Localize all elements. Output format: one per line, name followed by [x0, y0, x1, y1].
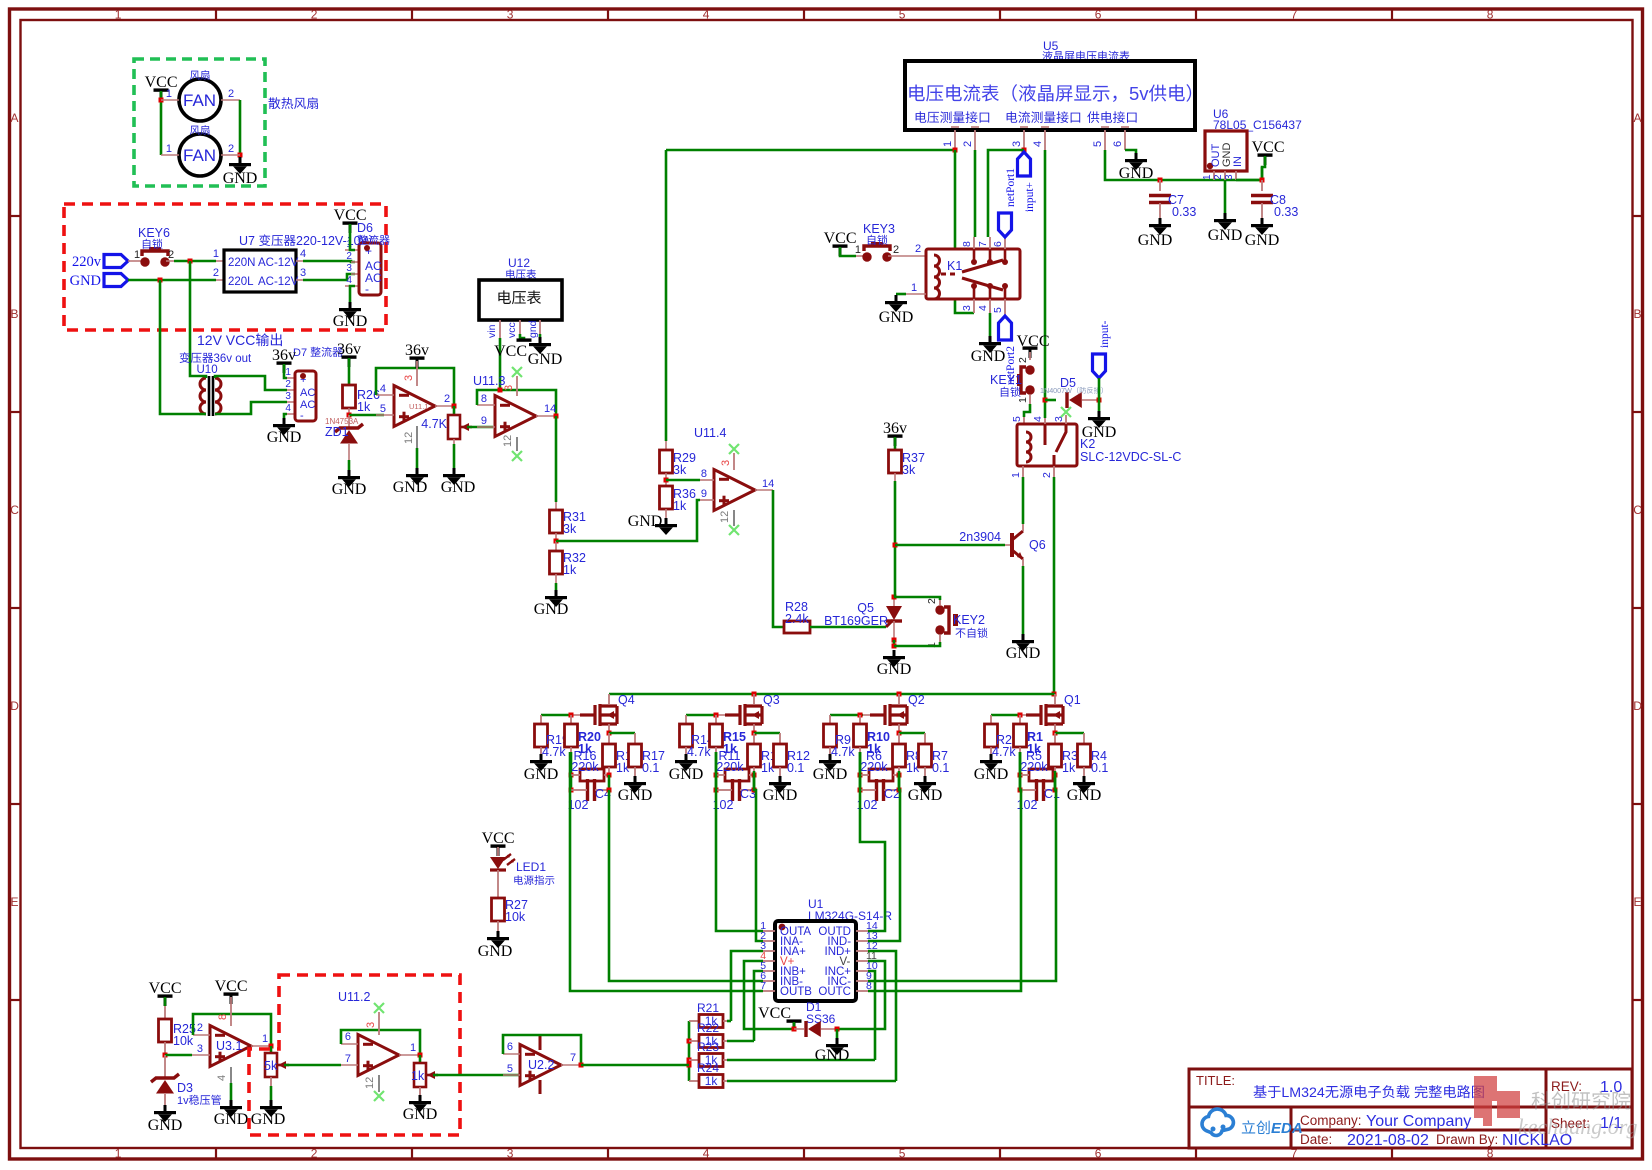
pin 5 of U2.2	[503, 1074, 520, 1076]
svg-text:36v: 36v	[405, 342, 429, 359]
svg-text:12: 12	[403, 432, 415, 444]
bridge rectifier D7	[295, 371, 316, 421]
wire Q5 cathode node	[893, 621, 895, 640]
svg-text:input-: input-	[1099, 320, 1111, 348]
K1 coil pin 1 to GND	[906, 293, 926, 295]
pin vin of U12	[499, 320, 501, 338]
svg-text:1: 1	[285, 367, 291, 378]
svg-text:C1: C1	[1044, 787, 1060, 801]
pin 7 of U11.2	[341, 1064, 358, 1066]
svg-text:3: 3	[1224, 174, 1235, 180]
pin 7 of U1 (OUTB)	[763, 990, 775, 992]
wire R8 down (sense node)	[897, 773, 902, 778]
VCC net (U6 in)	[1258, 153, 1273, 156]
svg-text:U5: U5	[1043, 39, 1059, 53]
resistor R22 1k	[689, 1040, 699, 1042]
pin 9 of U1 (INC-)	[856, 980, 868, 982]
svg-text:BT169GER: BT169GER	[824, 614, 888, 628]
svg-text:1: 1	[134, 249, 140, 261]
svg-text:3: 3	[961, 305, 973, 311]
svg-text:D: D	[1633, 699, 1642, 713]
source node of Q1	[1054, 724, 1056, 733]
wire U3.1 pin4 to GND	[230, 1083, 233, 1100]
resistor R36 1k	[660, 486, 673, 509]
net port input+ (on U5 pin3)	[1018, 152, 1031, 176]
svg-text:VCC: VCC	[1252, 139, 1285, 156]
svg-text:1k: 1k	[705, 1074, 719, 1088]
svg-text:220k: 220k	[716, 760, 744, 774]
gate bus of Q1	[1019, 714, 1026, 716]
svg-text:8: 8	[481, 393, 487, 405]
pin 2 of U1 (INA-)	[763, 940, 775, 942]
pin 3 of U3.1	[192, 1054, 210, 1056]
svg-text:Q4: Q4	[618, 693, 635, 707]
op-amp U3.1	[210, 1026, 251, 1067]
svg-text:5k: 5k	[264, 1059, 278, 1073]
pin 2 of U7	[216, 279, 224, 281]
capacitor C3 102	[731, 779, 734, 801]
pin 1 of FAN2	[161, 154, 179, 156]
K2 top pins 5,4,3	[1011, 416, 1023, 422]
pin2 of KEY1	[1029, 352, 1031, 360]
transistor Q1 (NMOS)	[1026, 704, 1063, 726]
svg-text:GND: GND	[877, 661, 912, 678]
svg-text:2: 2	[311, 1147, 318, 1161]
svg-text:GND: GND	[333, 313, 368, 330]
resistor R20 1k (gate)	[570, 715, 572, 724]
svg-text:5: 5	[1092, 141, 1104, 147]
reference rail from U2.2	[688, 1021, 691, 1081]
svg-text:GND: GND	[393, 479, 428, 496]
wire U6 pin2 to GND	[1224, 180, 1227, 213]
ground (U5 pin6)	[1135, 153, 1138, 159]
wire KEY6 to U7 pin1	[174, 260, 216, 263]
resistor R10 1k (gate)	[859, 715, 861, 724]
svg-text:5: 5	[899, 8, 906, 22]
36v net (U11.1 power)	[410, 356, 425, 359]
svg-text:Q5: Q5	[857, 601, 874, 615]
36v net (D7)	[277, 361, 292, 364]
port 220v	[104, 255, 128, 268]
svg-text:3: 3	[720, 460, 732, 466]
wire R24 to pin12 riser	[727, 1080, 896, 1083]
relay K1 (DPDT)	[926, 249, 1020, 299]
svg-text:12: 12	[502, 435, 514, 447]
svg-text:3k: 3k	[563, 522, 577, 536]
svg-text:0.1: 0.1	[1091, 761, 1108, 775]
svg-text:AC-12V: AC-12V	[258, 276, 299, 288]
svg-text:36v: 36v	[337, 341, 361, 358]
pin 3 of U1 (INA+)	[763, 950, 775, 952]
pin 2 of U3.1	[193, 1034, 210, 1036]
svg-text:KEY3: KEY3	[863, 222, 895, 236]
VCC net (LED1)	[491, 844, 506, 847]
ground (R9)	[829, 754, 832, 760]
svg-text:1: 1	[1202, 174, 1213, 180]
capacitor C7 0.33	[1158, 178, 1163, 183]
svg-text:Your Company: Your Company	[1366, 1113, 1471, 1130]
resistor R14 4.7k	[685, 715, 687, 724]
wire Q5 anode node	[893, 598, 895, 606]
svg-text:Date:: Date:	[1300, 1132, 1332, 1147]
ground (R32)	[555, 590, 558, 596]
svg-text:1k: 1k	[673, 499, 687, 513]
svg-text:5: 5	[507, 1063, 513, 1075]
svg-text:2: 2	[926, 598, 938, 604]
svg-text:1k: 1k	[563, 563, 577, 577]
svg-text:LM324: LM324	[1281, 1085, 1324, 1101]
wire node to Q6 base	[895, 544, 1005, 547]
svg-text:4: 4	[703, 8, 710, 22]
wire source to R17	[609, 732, 635, 735]
K2 bottom pins 1,2	[1022, 466, 1024, 477]
pin gnd of U12	[539, 320, 541, 334]
wire VCC to D6 pin1	[350, 224, 355, 250]
K1 top contact pins 8,7,6	[973, 237, 975, 249]
op-amp U11.1	[394, 386, 435, 427]
svg-text:1: 1	[166, 88, 172, 100]
pin 1 of U1 (OUTA)	[763, 930, 775, 932]
svg-text:4: 4	[216, 1075, 228, 1081]
pin 9 of U11.4	[700, 499, 714, 501]
source node of Q2	[898, 724, 900, 733]
svg-text:3: 3	[346, 263, 352, 274]
resistor R27 10k	[492, 898, 505, 921]
svg-text:1k: 1k	[411, 1069, 425, 1083]
wire R22 to pin5 riser	[727, 1040, 754, 1043]
net port input-	[1093, 354, 1106, 378]
svg-text:2: 2	[285, 379, 291, 390]
pin 12 of U11.3 (nc)	[516, 437, 518, 451]
svg-text:1: 1	[166, 143, 172, 155]
svg-text:1: 1	[115, 1147, 122, 1161]
svg-text:4.7k: 4.7k	[831, 745, 855, 759]
svg-text:2: 2	[893, 244, 899, 256]
resistor R28 2.4k	[784, 621, 810, 633]
svg-text:5: 5	[899, 1147, 906, 1161]
wire VCC to KEY3	[840, 247, 856, 256]
svg-text:VCC: VCC	[758, 1005, 791, 1022]
pin 14 (output) of U11.3	[536, 415, 556, 417]
wire D7 pin4 to GND	[284, 414, 287, 418]
pin 1 (output) of U3.1	[251, 1045, 271, 1047]
svg-text:0.1: 0.1	[932, 761, 949, 775]
red dashed enclosure: 220v to 12V supply	[64, 204, 386, 330]
wire U10 sec top to D7 pin2	[215, 376, 287, 390]
wire drain of Q2	[898, 694, 900, 704]
resistor R13 1k	[753, 733, 755, 744]
svg-text:14: 14	[762, 478, 774, 490]
wire U1 pin10 INC+ to R23	[868, 971, 875, 1060]
svg-text:FAN: FAN	[183, 146, 216, 165]
svg-text:12V VCC: 12V VCC	[197, 332, 255, 348]
wire R10 down (gate node)	[859, 752, 862, 775]
potentiometer 4.7K	[448, 415, 460, 439]
svg-text:R22: R22	[697, 1021, 719, 1035]
wire R36 to GND	[665, 509, 667, 518]
ground (D6 -)	[349, 302, 352, 308]
wire U1 pin13 IND- to Q2 sense	[868, 771, 900, 941]
svg-text:GND: GND	[974, 766, 1009, 783]
wire drain of Q3	[753, 694, 755, 704]
svg-text:9: 9	[701, 488, 707, 500]
ground (Q5)	[893, 650, 896, 656]
svg-text:-: -	[365, 282, 369, 296]
svg-text:vin: vin	[486, 324, 498, 338]
resistor R19 4.7k	[540, 715, 542, 724]
pin 12 of U11.4 (nc)	[733, 510, 735, 526]
wire U11.3 out down to R31	[555, 416, 558, 502]
ground (1k pot)	[419, 1095, 422, 1101]
wire 36v to R37	[894, 437, 897, 450]
svg-text:1: 1	[262, 1033, 268, 1045]
ground (R36)	[665, 518, 668, 524]
svg-text:AC-12V: AC-12V	[258, 257, 299, 269]
svg-text:IN: IN	[1232, 156, 1244, 167]
ground (D3)	[164, 1105, 167, 1111]
transistor Q6 2n3904	[1005, 544, 1012, 546]
VCC net (R25)	[158, 994, 173, 997]
svg-text:GND: GND	[441, 479, 476, 496]
svg-text:Company:: Company:	[1300, 1113, 1362, 1128]
svg-text:U11.4: U11.4	[694, 426, 726, 440]
svg-text:3: 3	[365, 1022, 377, 1028]
wire U5 pin2 down to K1 pin8	[974, 150, 977, 237]
svg-text:2: 2	[915, 243, 921, 255]
net port Port2 (K1 pin5)	[999, 316, 1012, 340]
wire Q6 emitter to GND	[1022, 559, 1024, 566]
wire U6 pin3 to VCC rail	[1236, 167, 1262, 180]
ground (D1)	[836, 1038, 839, 1044]
svg-text:input+: input+	[1024, 182, 1036, 212]
drain bus wire	[609, 693, 1055, 696]
svg-text:GND: GND	[148, 1117, 183, 1134]
pin 14 (output) of U11.4	[755, 489, 773, 491]
svg-text:2: 2	[228, 88, 234, 100]
svg-text:EDA: EDA	[1271, 1120, 1303, 1137]
title block	[1189, 1069, 1632, 1148]
svg-text:0.1: 0.1	[787, 761, 804, 775]
36v net (R37)	[888, 434, 903, 437]
svg-text:GND: GND	[267, 429, 302, 446]
wire source to R12	[754, 732, 780, 735]
resistor R12 0.1	[774, 744, 787, 767]
svg-text:Q3: Q3	[763, 693, 780, 707]
svg-text:6: 6	[507, 1041, 513, 1053]
svg-text:0.33: 0.33	[1274, 205, 1298, 219]
capacitor C1 102	[1035, 779, 1038, 801]
svg-text:KEY1: KEY1	[990, 373, 1022, 387]
svg-text:GND: GND	[1067, 787, 1102, 804]
svg-text:36v: 36v	[883, 420, 907, 437]
wire output to pot	[453, 406, 456, 415]
pin 1 (output) of U11.2	[399, 1054, 420, 1056]
resistor R23 1k	[689, 1059, 699, 1061]
resistor R4 0.1	[1078, 744, 1091, 767]
svg-text:2: 2	[168, 249, 174, 261]
resistor R17 0.1	[629, 744, 642, 767]
svg-text:4: 4	[346, 275, 352, 286]
svg-text:2: 2	[197, 1022, 203, 1034]
pin2 of KEY3 to K1 coil pin2	[888, 255, 926, 257]
ground (C7)	[1159, 218, 1162, 224]
wire 220v line down to U10	[190, 261, 199, 376]
pin 2 of FAN2	[221, 154, 240, 156]
node R29/R36	[665, 473, 667, 486]
wire 36v to D7 pin1	[284, 364, 287, 378]
svg-text:R23: R23	[697, 1040, 719, 1054]
svg-text:7: 7	[570, 1052, 576, 1064]
svg-text:3: 3	[507, 8, 514, 22]
net port netPort1 (K1 pin6)	[999, 213, 1012, 237]
svg-text:4: 4	[1032, 416, 1044, 422]
wire U5 pin5 to 5v rail	[1105, 150, 1262, 180]
svg-text:1: 1	[1017, 397, 1029, 403]
pin 12 of U11.1	[416, 426, 418, 448]
svg-text:kechuang.org: kechuang.org	[1518, 1114, 1638, 1139]
wire Q5 node to KEY2 pin2	[894, 597, 940, 600]
pin 2 of FAN1	[221, 99, 240, 101]
svg-text:3: 3	[197, 1043, 203, 1055]
ground (R7)	[924, 776, 927, 782]
resistor R1 1k (gate)	[1019, 715, 1021, 724]
U5 pins 1-6	[954, 130, 956, 150]
svg-text:U12: U12	[508, 256, 530, 270]
svg-text:36v: 36v	[272, 347, 296, 364]
svg-text:6: 6	[992, 241, 1004, 247]
pin 11 of U1 (V-)	[856, 960, 868, 962]
svg-text:ZD1: ZD1	[325, 425, 349, 439]
feedback U11.2 out to pin6	[341, 1030, 420, 1055]
wire R26 to node	[348, 408, 350, 415]
ground (input-)	[1098, 411, 1101, 417]
svg-text:3: 3	[1011, 141, 1023, 147]
svg-text:14: 14	[544, 403, 556, 415]
wire R23 to pin10 riser	[727, 1059, 875, 1062]
wire node to U3.1 pin3	[165, 1054, 192, 1057]
ground (R19)	[540, 754, 543, 760]
pin 6 of U2.2	[503, 1053, 520, 1055]
wire U11.4 out to R28	[773, 490, 784, 627]
svg-text:GND: GND	[669, 766, 704, 783]
transformer U10 36v	[180, 352, 190, 363]
ground (pot)	[453, 468, 456, 474]
pin2 of KEY6	[166, 260, 176, 262]
capacitor C8 0.33	[1260, 178, 1265, 183]
svg-text:GND: GND	[763, 787, 798, 804]
svg-text:1k: 1k	[357, 400, 371, 414]
svg-text:VCC: VCC	[149, 980, 182, 997]
ground (U11.1)	[416, 468, 419, 474]
svg-text:2: 2	[444, 393, 450, 405]
wire R20 down (gate node)	[570, 752, 573, 775]
wire output to 5k pot	[270, 1046, 273, 1053]
wire U1 pin5 INB+ to R22	[754, 971, 763, 1041]
svg-text:SS36: SS36	[806, 1012, 836, 1026]
ground (D7)	[283, 418, 286, 424]
svg-text:-: -	[300, 410, 304, 422]
resistor R31 3k	[550, 510, 563, 533]
pin 9 of U11.3	[477, 426, 495, 428]
wire GND port to U7 pin2	[128, 279, 216, 282]
svg-text:2: 2	[1213, 174, 1224, 180]
wire source to R4	[1055, 732, 1084, 735]
wire pot wiper to U11.3 pin9	[467, 426, 493, 429]
label 散热风扇	[269, 97, 281, 109]
pin 12 of U11.2 (nc)	[378, 1075, 380, 1092]
wire LED1 to R27	[497, 870, 499, 898]
svg-text:R24: R24	[697, 1061, 719, 1075]
fan FAN2	[179, 134, 221, 176]
svg-text:GND: GND	[403, 1106, 438, 1123]
fan FAN1	[179, 79, 221, 121]
svg-text:1: 1	[410, 1042, 416, 1054]
wire U5 pin3 node	[1022, 148, 1027, 153]
wire K1 pin4 to GND	[989, 313, 992, 336]
op-amp U11.4	[714, 470, 755, 511]
wire source to R7	[899, 732, 925, 735]
svg-text:1N4007W: 1N4007W	[1040, 386, 1072, 395]
svg-text:KEY2: KEY2	[953, 613, 985, 627]
junction U5 pin4 / D5 / K2 pin4	[1043, 398, 1048, 403]
ground (U12)	[539, 337, 542, 343]
svg-text:3k: 3k	[673, 463, 687, 477]
bridge rectifier D6	[359, 243, 381, 295]
VCC net (U12)	[517, 338, 532, 341]
LED LED1	[497, 847, 499, 856]
svg-text:KEY6: KEY6	[138, 226, 170, 240]
resistor R29 3k	[660, 450, 673, 473]
wire U2.2 out to R21-24 rail	[581, 1064, 689, 1067]
ground (K1 coil)	[895, 295, 898, 301]
svg-text:2: 2	[346, 251, 352, 262]
source node of Q3	[753, 724, 755, 733]
resistor R8 1k	[898, 733, 900, 744]
svg-text:Drawn By:: Drawn By:	[1436, 1132, 1498, 1147]
ground (U3.1)	[230, 1100, 233, 1106]
wire D6 pin4 to GND	[350, 286, 355, 302]
wire U7 pin3 to D6 pin3	[303, 274, 355, 280]
svg-text:A: A	[11, 111, 19, 125]
wire gnd pin to GND	[539, 334, 542, 337]
svg-text:U11.2: U11.2	[338, 990, 370, 1004]
svg-text:2n3904: 2n3904	[959, 530, 1001, 544]
wire output to 1k pot	[419, 1055, 422, 1063]
svg-text:8: 8	[1487, 8, 1494, 22]
transistor Q2 (NMOS)	[870, 704, 907, 726]
wire U1 pin8 OUTC to Q1 gate	[868, 752, 1021, 991]
svg-text:0.33: 0.33	[1172, 205, 1196, 219]
wire U1 pin1 OUTA to Q3 gate	[716, 752, 763, 931]
capacitor C4 102	[586, 779, 589, 801]
svg-text:GND: GND	[813, 766, 848, 783]
pin 14 of U1 (OUTD)	[856, 930, 868, 932]
EasyEDA logo	[1202, 1109, 1233, 1135]
svg-text:GND: GND	[879, 309, 914, 326]
svg-text:FAN: FAN	[183, 91, 216, 110]
svg-text:Q1: Q1	[1064, 693, 1081, 707]
svg-text:GND: GND	[1208, 227, 1243, 244]
svg-text:R21: R21	[697, 1001, 719, 1015]
pin 4 of U3.1	[230, 1067, 232, 1083]
svg-text:E: E	[1634, 895, 1642, 909]
rectifier D6 pins	[345, 249, 359, 251]
resistor R16 220k	[580, 769, 604, 781]
node R25/D3	[164, 1042, 166, 1055]
svg-text:GND: GND	[528, 351, 563, 368]
svg-text:8: 8	[701, 468, 707, 480]
svg-text:2.4k: 2.4k	[785, 612, 809, 626]
